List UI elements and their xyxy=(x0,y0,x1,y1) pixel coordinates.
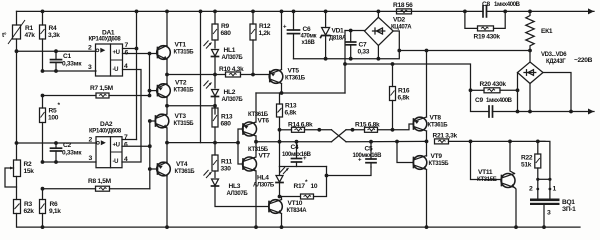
svg-text:R22: R22 xyxy=(521,155,533,162)
node R5 pin3 junction xyxy=(41,160,45,164)
svg-text:R17: R17 xyxy=(294,183,306,190)
node C5 ring tee xyxy=(325,174,329,178)
transistor VT11 KT315B npn xyxy=(477,169,515,188)
resistor R7 feedback xyxy=(41,85,152,98)
capacitor C5 electrolytic xyxy=(353,140,383,167)
svg-text:КТ361Б: КТ361Б xyxy=(174,88,195,94)
node VT8 emitter tee xyxy=(425,49,429,53)
resistor R6 xyxy=(40,189,62,229)
capacitor C1 xyxy=(51,49,83,73)
node VT10 emitter rail xyxy=(280,225,284,229)
svg-text:HL3: HL3 xyxy=(229,183,241,190)
node junction R4 pin3 xyxy=(41,69,45,73)
svg-text:47k: 47k xyxy=(25,32,36,39)
node VT7 emitter rail xyxy=(254,225,258,229)
svg-text:VT8: VT8 xyxy=(430,115,442,122)
svg-text:~220В: ~220В xyxy=(574,57,593,64)
svg-text:КТ361Б: КТ361Б xyxy=(175,169,196,175)
node collectors junction R21 xyxy=(425,140,429,144)
resistor R22 xyxy=(521,140,541,200)
wire pin1 pin2 tie xyxy=(538,178,550,180)
svg-text:C4: C4 xyxy=(291,144,299,151)
svg-text:VT9: VT9 xyxy=(431,153,443,160)
svg-text:R3: R3 xyxy=(24,201,32,208)
resistor R4 xyxy=(40,10,61,72)
svg-text:КТ315Б: КТ315Б xyxy=(477,177,498,183)
LED HL3 AL307B xyxy=(204,170,270,207)
wire VT10 emitter to rail xyxy=(281,214,283,228)
op-amp DA1 KR140UD608 xyxy=(88,30,129,77)
svg-text:КД243Г: КД243Г xyxy=(546,59,566,65)
bridge rectifier VD3-VD6 KD243G xyxy=(518,52,568,84)
wire DA1 pin3 input xyxy=(43,70,97,72)
svg-text:R18 56: R18 56 xyxy=(393,2,413,9)
wire VT3 VT4 emitters join xyxy=(166,128,168,163)
node VD2 dc minus junction xyxy=(397,49,401,53)
wire VT8 VT9 collectors join xyxy=(426,131,428,156)
svg-text:100мкx16В: 100мкx16В xyxy=(353,153,383,159)
node collector row junction at ring riser xyxy=(278,140,282,144)
svg-text:3: 3 xyxy=(88,64,92,71)
resistor R8 feedback xyxy=(41,178,150,191)
wire VT6 emitter riser to VT5 row xyxy=(255,93,257,122)
svg-text:3: 3 xyxy=(89,155,93,162)
wire y50 row to EK1 bottom xyxy=(399,51,530,63)
node rail riser top xyxy=(199,10,203,14)
wire VT10 collector to ring bottom xyxy=(281,197,283,200)
svg-text:HL4: HL4 xyxy=(257,175,269,182)
wire bottom common rail xyxy=(17,226,580,228)
wire VT3 base xyxy=(150,120,156,122)
capacitor C2 xyxy=(51,141,83,164)
svg-text:АЛ307Б: АЛ307Б xyxy=(222,55,244,61)
svg-text:9,1k: 9,1k xyxy=(49,208,61,215)
transistor VT5 KT361B pnp xyxy=(269,68,306,84)
node VT11 emitter rail xyxy=(514,225,518,229)
transistor VT2 KT361B pnp xyxy=(157,80,195,98)
wire emitter node to R13 R11 junction and bases xyxy=(167,142,238,144)
resistor R21 horizontal xyxy=(433,133,546,144)
node VT9 base riser tee xyxy=(395,140,399,144)
wire HL1 to HL2 xyxy=(214,75,216,89)
svg-text:1мкx400В: 1мкx400В xyxy=(486,98,513,104)
resistor R5 xyxy=(40,96,61,163)
wire VT9 base riser xyxy=(397,142,414,163)
wire minus bus under C6 VD1 C7 xyxy=(294,51,400,59)
svg-text:КТ315Б: КТ315Б xyxy=(429,161,450,167)
wire VT6 VT7 collectors join xyxy=(255,136,257,156)
LED HL2 AL307B xyxy=(204,81,244,115)
svg-text:+U: +U xyxy=(113,143,120,149)
svg-text:0,33мк: 0,33мк xyxy=(62,61,82,68)
node emitter junction lower xyxy=(165,141,169,145)
svg-text:1мкx400В: 1мкx400В xyxy=(494,2,521,8)
svg-text:-U: -U xyxy=(113,159,119,165)
svg-text:VD1: VD1 xyxy=(332,28,345,35)
svg-text:VD3...VD6: VD3...VD6 xyxy=(541,52,567,58)
svg-text:2: 2 xyxy=(88,45,92,52)
wire collector row right xyxy=(256,141,332,143)
transistor VT3 KT315B npn xyxy=(155,113,194,128)
svg-text:R7 1,5М: R7 1,5М xyxy=(90,85,114,92)
node VT11 collector tee xyxy=(508,140,512,144)
svg-text:R10 4,3k: R10 4,3k xyxy=(219,66,244,73)
wire y64 row to R20 C9 xyxy=(345,64,471,90)
svg-text:4: 4 xyxy=(124,156,128,163)
svg-text:C8: C8 xyxy=(482,1,490,8)
capacitor C4 electrolytic xyxy=(282,140,312,167)
svg-text:R4: R4 xyxy=(49,25,57,32)
capacitor C8 in rail xyxy=(463,1,521,17)
wire collector row X net to R21 xyxy=(346,140,427,142)
svg-text:C6: C6 xyxy=(303,26,311,33)
svg-text:АЛ307Б: АЛ307Б xyxy=(222,97,244,103)
wire VT5 emitter to rail xyxy=(281,11,283,69)
svg-text:R20 430k: R20 430k xyxy=(480,81,507,88)
node HL2 bottom junction xyxy=(213,104,217,108)
svg-text:C1: C1 xyxy=(63,53,71,60)
wire VT2 VT3 collectors join xyxy=(166,98,168,114)
wire top supply rail xyxy=(17,10,466,12)
wire VD2 left vertex to C7 riser xyxy=(345,30,365,32)
LED HL4 AL307B xyxy=(253,167,289,199)
svg-text:АЛ307Б: АЛ307Б xyxy=(253,183,275,189)
svg-text:680: 680 xyxy=(221,121,232,128)
wire emitter node to LED chain xyxy=(167,74,215,76)
node y64 tee on riser xyxy=(343,62,347,66)
svg-text:КТ361Б: КТ361Б xyxy=(285,76,306,82)
piezo BQ1 ZP-1 xyxy=(530,199,576,230)
svg-text:R21 3,3k: R21 3,3k xyxy=(433,133,458,140)
svg-text:R6: R6 xyxy=(50,201,58,208)
capacitor C7 xyxy=(346,29,370,61)
svg-text:C9: C9 xyxy=(475,97,483,104)
svg-text:15k: 15k xyxy=(24,168,35,175)
svg-text:x16В: x16В xyxy=(302,40,316,46)
svg-text:0,33: 0,33 xyxy=(358,49,370,56)
wire +U riser top rail to DA2 pin7 xyxy=(136,11,138,139)
wire left vertical R1 branch down xyxy=(16,51,18,160)
svg-text:3: 3 xyxy=(547,210,551,217)
svg-text:330: 330 xyxy=(221,166,232,173)
transistor VT10 KT834A npn xyxy=(269,200,308,215)
node DA1 pin7 junction xyxy=(135,47,139,51)
op-amp DA2 KR140UD608 xyxy=(89,121,129,168)
svg-text:R1: R1 xyxy=(25,25,33,32)
svg-text:62k: 62k xyxy=(24,208,35,215)
svg-text:VD2: VD2 xyxy=(393,17,406,24)
svg-text:100: 100 xyxy=(48,115,59,122)
svg-text:КТ315Б: КТ315Б xyxy=(174,50,195,56)
svg-text:C7: C7 xyxy=(359,42,367,49)
node junction R1-C1 xyxy=(15,49,19,53)
transistor VT4 KT361B pnp xyxy=(157,161,196,176)
svg-text:АЛ307Б: АЛ307Б xyxy=(227,191,249,197)
node VT9 emitter rail xyxy=(425,225,429,229)
svg-text:VT5: VT5 xyxy=(288,68,300,75)
resistor R19 parallel loop xyxy=(465,11,505,40)
node VD3 bottom junction xyxy=(528,110,532,114)
resistor R9 xyxy=(212,10,231,49)
heater element EK1 zigzag xyxy=(526,10,553,53)
wire VT6 VT7 bases tie xyxy=(238,129,243,164)
svg-text:R12: R12 xyxy=(259,23,271,30)
wire VT5 collector row to corner riser xyxy=(256,92,345,94)
wire DA2 pin6 to VT3 VT4 bases xyxy=(122,145,150,147)
node VT11 base riser tee xyxy=(469,140,473,144)
resistor R18 in rail xyxy=(393,2,413,14)
wire DA1 pin4 down to DA2 pin4 xyxy=(122,70,141,163)
svg-text:10: 10 xyxy=(311,183,318,190)
svg-text:HL1: HL1 xyxy=(224,47,236,54)
svg-text:1: 1 xyxy=(553,186,557,193)
svg-text:DA1: DA1 xyxy=(102,30,115,37)
wire VT11 base riser xyxy=(471,141,502,179)
transistor VT1 KT315B npn xyxy=(157,42,195,60)
svg-text:VT6: VT6 xyxy=(258,118,270,125)
capacitor C9 in ac line xyxy=(471,90,595,117)
svg-text:ЕК1: ЕК1 xyxy=(541,28,553,35)
wire DA1 pin2 input xyxy=(17,50,96,52)
wire HL4 ring top xyxy=(280,166,327,168)
svg-text:0,33мк: 0,33мк xyxy=(62,150,82,157)
transistor VT9 KT315B npn xyxy=(413,153,449,170)
node emitter junction xyxy=(165,73,169,77)
resistor R3 xyxy=(14,200,35,228)
wire VD3 bottom vertex riser xyxy=(529,84,531,112)
node tie right xyxy=(548,178,551,181)
wire DA1 pin7 to +rail riser xyxy=(123,48,137,50)
wire VT2 base xyxy=(150,90,157,92)
node mains arrow terminal xyxy=(588,109,594,115)
node DA2 pin2 wire left xyxy=(15,141,19,145)
svg-text:R13: R13 xyxy=(285,103,297,110)
wire VD3 left vertex riser xyxy=(517,73,519,112)
wire collector node to HL2 bottom xyxy=(167,105,215,107)
wire DA2 pin2 input xyxy=(17,142,97,144)
node top rail arrow terminal xyxy=(588,8,594,14)
wire VT11 emitter to rail xyxy=(515,188,517,228)
wire VT1 collector to rail xyxy=(166,11,168,45)
svg-text:470мк: 470мк xyxy=(301,34,317,40)
svg-text:R11: R11 xyxy=(221,159,232,166)
resistor R11 330 xyxy=(212,155,232,178)
svg-text:1,2k: 1,2k xyxy=(259,30,271,37)
node pin6 branch xyxy=(148,52,152,56)
svg-text:R5: R5 xyxy=(49,108,57,115)
node VT5 collector junction xyxy=(280,91,284,95)
svg-text:R8 1,5М: R8 1,5М xyxy=(88,178,112,185)
node VT5 emitter rail xyxy=(280,10,284,14)
resistor R14 horizontal xyxy=(280,122,332,133)
node VT3 base tee xyxy=(148,119,152,123)
node VT1 collector rail xyxy=(165,10,169,14)
node HL chain R10 tap xyxy=(213,73,217,77)
svg-text:VT2: VT2 xyxy=(175,80,187,87)
potentiometer R2 xyxy=(5,160,34,200)
node R13 R11 junction xyxy=(213,141,217,145)
wire VT4 collector to bottom rail xyxy=(166,176,168,227)
wire VT9 emitter to rail xyxy=(426,170,428,228)
wire VT4 base xyxy=(150,168,158,170)
wire R21 net corner to BQ1 pin1 xyxy=(538,141,550,199)
capacitor C6 electrolytic xyxy=(283,10,317,59)
resistor R13 6.8k column xyxy=(277,93,297,167)
node C9 wire VD3 left riser xyxy=(516,110,520,114)
svg-text:6,8k: 6,8k xyxy=(398,95,410,102)
svg-text:VT7: VT7 xyxy=(259,153,271,160)
svg-text:C2: C2 xyxy=(63,142,71,149)
svg-text:BQ1: BQ1 xyxy=(562,199,575,206)
resistor R13 680 xyxy=(212,108,233,155)
node collector junction xyxy=(165,104,169,108)
wire rail riser x200 xyxy=(200,11,202,142)
bridge rectifier VD2 KC407A xyxy=(365,10,413,61)
wire VT7 emitter to bottom rail xyxy=(255,171,257,227)
svg-text:2: 2 xyxy=(529,186,533,193)
wire DA2 pin7 riser xyxy=(122,139,137,141)
resistor R20 parallel xyxy=(469,81,520,93)
resistor R10 horizontal xyxy=(215,66,270,77)
transistor VT6 KT361B pnp xyxy=(243,112,270,136)
wire VD3 right vertex to mains xyxy=(543,73,571,112)
wire top rail right of C8 to arrow xyxy=(505,10,594,12)
svg-text:R2: R2 xyxy=(24,161,32,168)
svg-text:R19 430k: R19 430k xyxy=(474,34,501,41)
svg-text:DA2: DA2 xyxy=(100,121,113,128)
transistor VT8 KT361B pnp xyxy=(413,115,448,132)
wire C5 bottom to ring xyxy=(327,167,372,176)
svg-text:R13: R13 xyxy=(221,114,233,121)
svg-text:VT3: VT3 xyxy=(175,113,187,120)
wire DA1 pin6 to VT1 base xyxy=(123,53,157,55)
resistor R15 horizontal xyxy=(346,122,414,133)
svg-text:+U: +U xyxy=(113,50,120,56)
svg-text:R15 6,8k: R15 6,8k xyxy=(355,122,380,129)
svg-text:R14 6,8k: R14 6,8k xyxy=(288,122,313,129)
wire pin6 lower net vertical xyxy=(149,121,151,189)
node DA2 pin6 branch xyxy=(148,144,152,148)
svg-text:VT4: VT4 xyxy=(176,161,188,168)
svg-text:C5: C5 xyxy=(365,146,373,153)
svg-text:3,3k: 3,3k xyxy=(48,32,60,39)
transistor VT7 KT315B npn xyxy=(243,147,271,171)
node mains riser junction xyxy=(569,110,573,114)
svg-text:Д818А: Д818А xyxy=(329,36,347,42)
svg-text:VT11: VT11 xyxy=(478,169,493,176)
zener diode VD1 D818A xyxy=(321,10,347,61)
svg-text:КТ315Б: КТ315Б xyxy=(174,121,195,127)
node bases mid junction xyxy=(236,141,240,145)
svg-text:КЦ407А: КЦ407А xyxy=(391,25,412,31)
wire pin6 net vertical to VT2 base and R7 xyxy=(149,54,151,96)
node rail riser junction xyxy=(135,10,139,14)
node R14 left tee xyxy=(278,128,282,132)
svg-text:R9: R9 xyxy=(221,23,229,30)
svg-text:R16: R16 xyxy=(398,88,410,95)
resistor R12 xyxy=(250,10,271,77)
thermistor R1 xyxy=(2,11,35,51)
svg-text:100мкx16В: 100мкx16В xyxy=(282,152,312,158)
node pin1 mark xyxy=(549,188,552,191)
wire VT11 collector riser xyxy=(510,141,515,173)
svg-text:51k: 51k xyxy=(521,162,532,169)
resistor R16 xyxy=(390,62,410,132)
svg-text:VT10: VT10 xyxy=(288,200,303,207)
wire crossover X diagonals xyxy=(332,130,347,142)
node pin2 mark xyxy=(536,188,539,191)
wire VT8 emitter riser to y50 row xyxy=(426,51,428,118)
svg-text:-U: -U xyxy=(113,67,119,73)
svg-text:VT1: VT1 xyxy=(175,42,187,49)
svg-text:680: 680 xyxy=(221,30,232,37)
node VT6 VT7 collector junction xyxy=(254,140,258,144)
wire VT5 collector down xyxy=(281,84,283,94)
svg-text:6: 6 xyxy=(124,142,128,149)
wire VT1 VT2 emitters join xyxy=(166,60,168,85)
svg-text:КТ361Б: КТ361Б xyxy=(428,123,449,129)
node VT2 base tee xyxy=(148,89,152,93)
svg-text:6,8k: 6,8k xyxy=(285,110,297,117)
wire DA2 pin3 input xyxy=(43,161,97,163)
svg-text:ЗП-1: ЗП-1 xyxy=(562,206,576,213)
node tie left xyxy=(536,178,539,181)
LED HL1 AL307B xyxy=(204,41,244,75)
node VT4 collector rail xyxy=(165,225,169,229)
wire riser x345 from VD2 left wire down to VT5 row xyxy=(344,31,346,94)
svg-text:2: 2 xyxy=(89,137,93,144)
svg-text:t°: t° xyxy=(2,31,7,39)
svg-text:HL2: HL2 xyxy=(224,89,236,96)
svg-text:КТ834А: КТ834А xyxy=(287,208,308,214)
node VT4 base tee xyxy=(148,167,152,171)
svg-text:КР140УД608: КР140УД608 xyxy=(89,129,122,135)
resistor R17 with ring xyxy=(280,167,327,200)
svg-text:КР140УД608: КР140УД608 xyxy=(89,37,122,43)
